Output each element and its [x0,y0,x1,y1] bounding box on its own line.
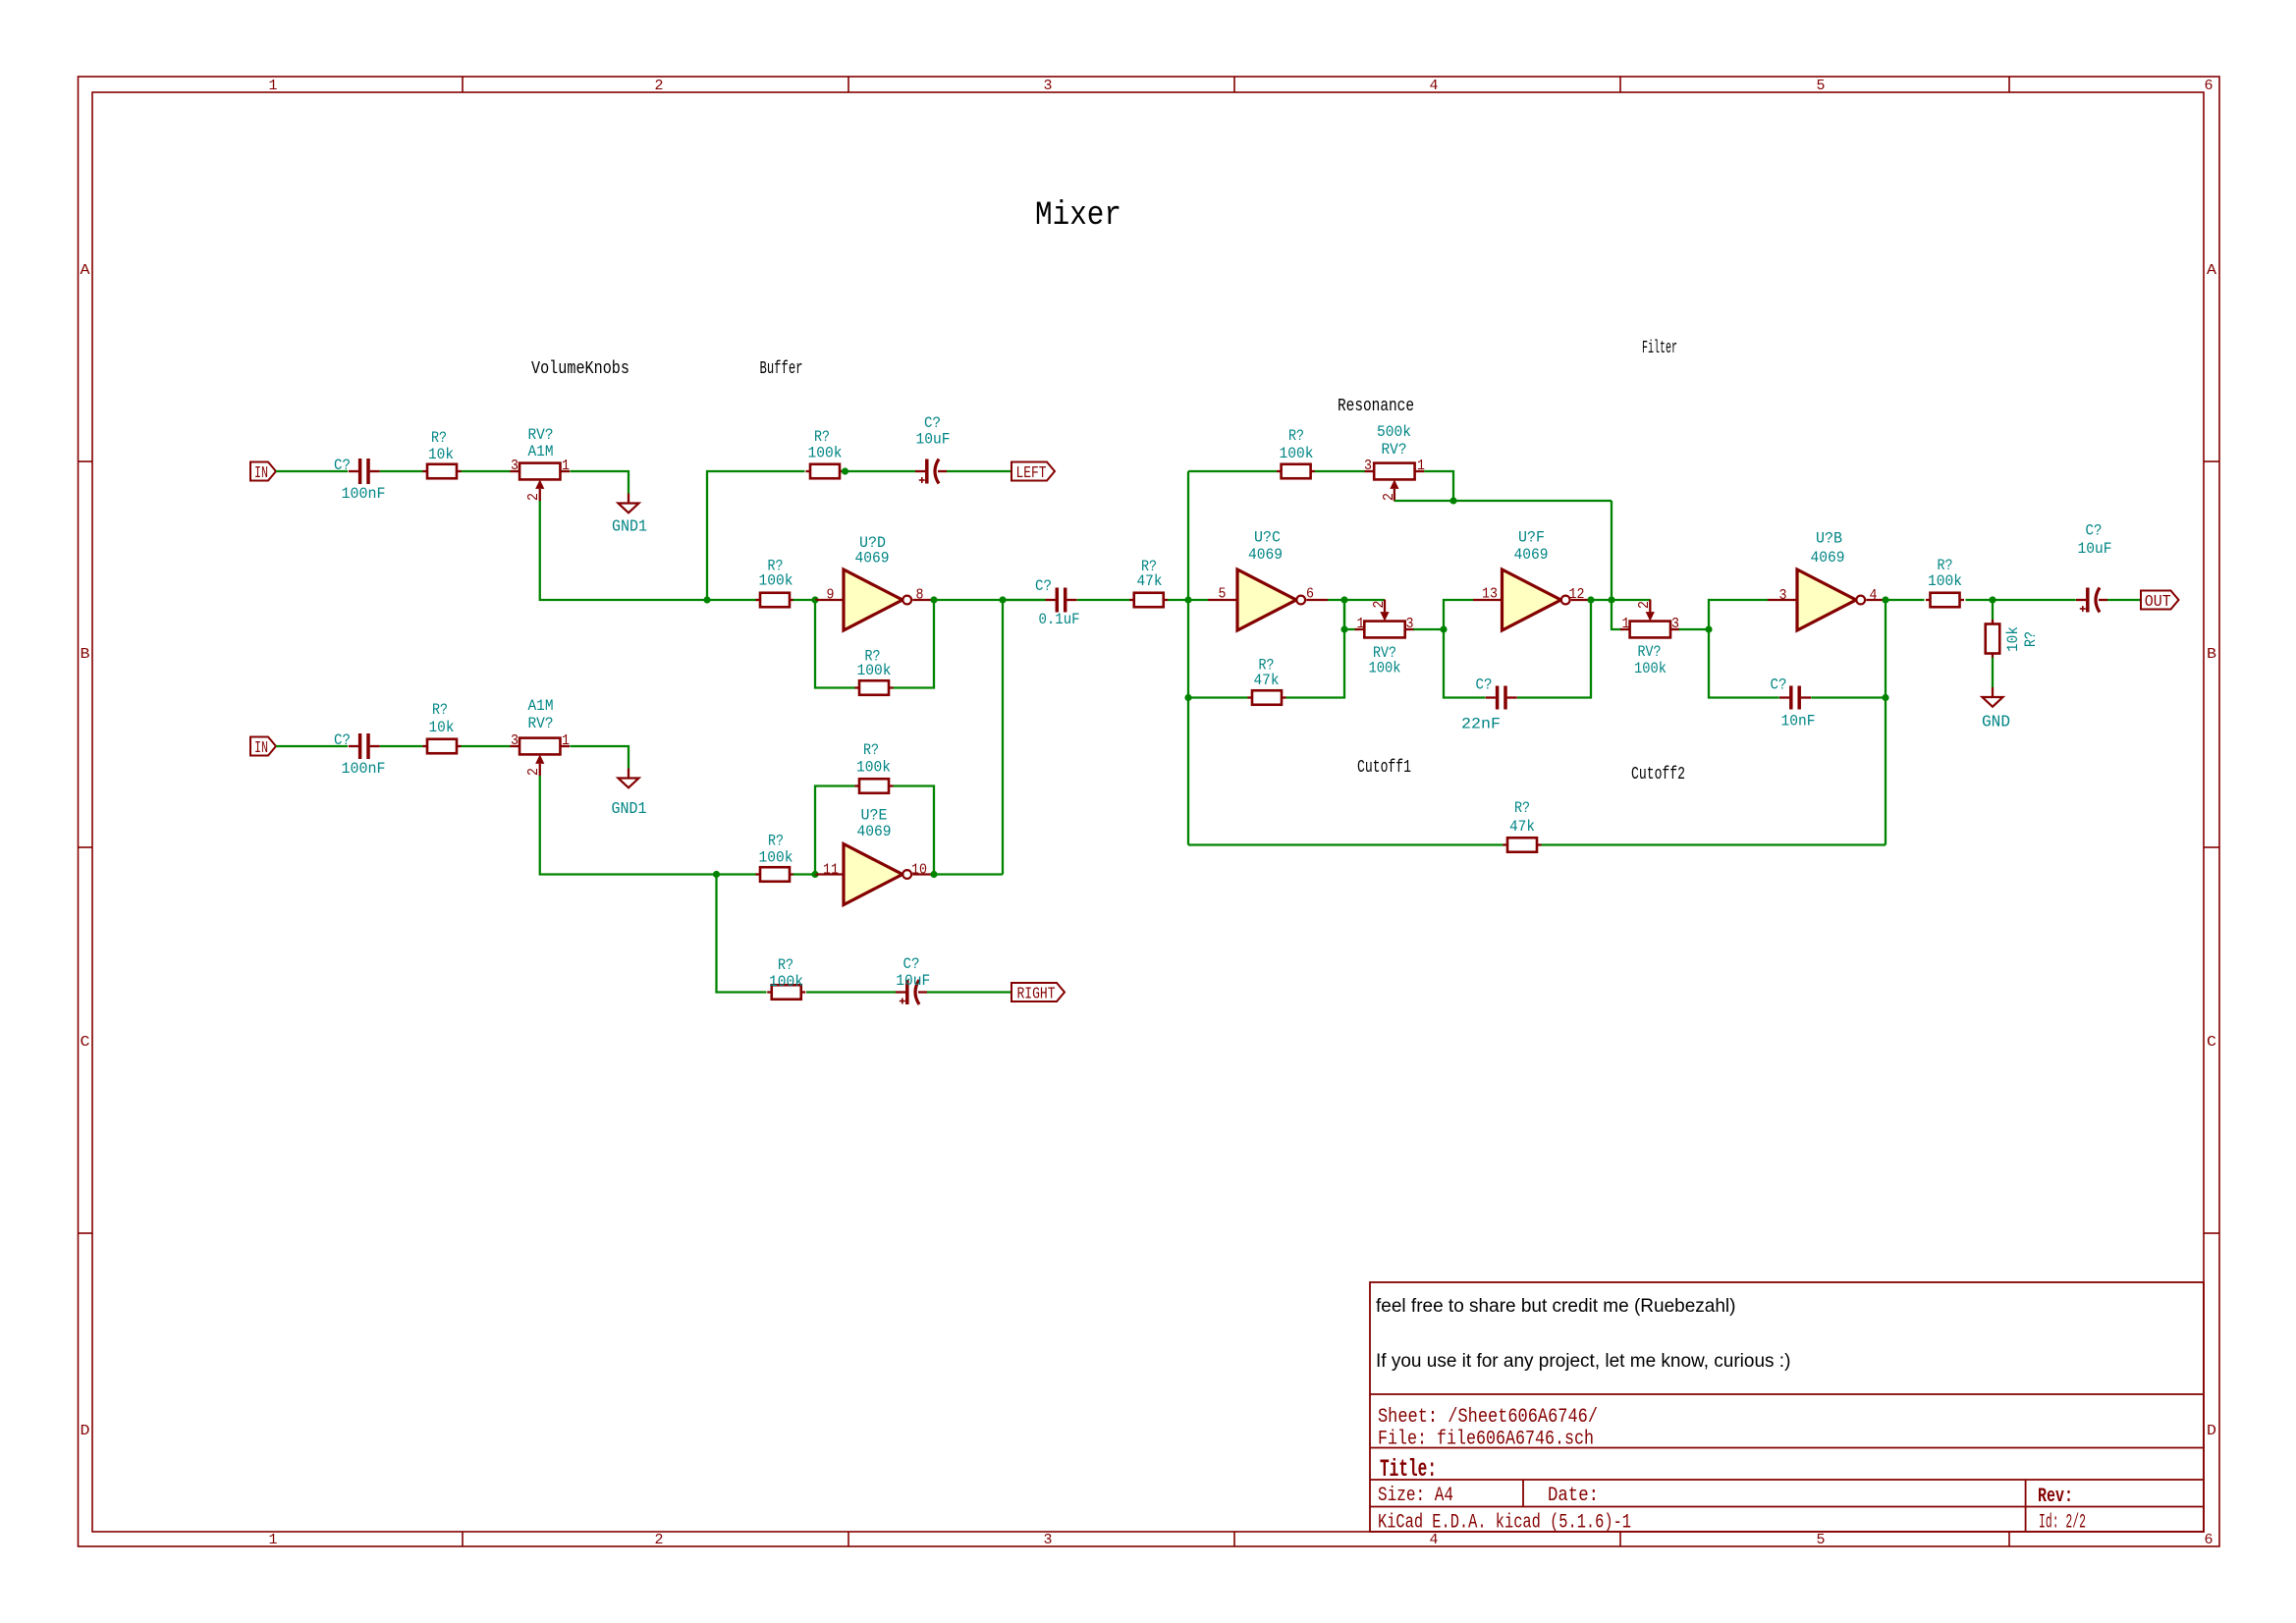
U?B output riser down [1885,600,1886,845]
pin 10 wire (U?E output pin) [912,873,934,875]
svg-text:100nF: 100nF [342,485,386,503]
svg-text:Buffer: Buffer [760,359,803,379]
wire out node to 10uF cap [1993,599,2076,601]
svg-text:4069: 4069 [1514,546,1549,564]
svg-text:1: 1 [269,78,278,94]
svg-text:500k: 500k [1377,423,1411,441]
ground symbol GND (output) [1983,687,2003,707]
capacitor C? 100nF (channel 1) [349,459,380,484]
port LEFT [1011,462,1055,481]
node junction cutoff2 pin3 [1705,625,1712,632]
svg-text:R?: R? [778,956,793,974]
svg-text:6: 6 [2205,78,2214,94]
pin 13 wire (U?F input pin) [1473,599,1503,601]
svg-text:Size: A4: Size: A4 [1378,1485,1453,1507]
svg-text:R?: R? [431,429,447,447]
svg-text:1: 1 [562,458,570,474]
wire ch2 node down to RIGHT row [717,875,767,993]
inverter U?E 4069 [844,844,911,905]
wire mix riser down to channel 2 [1002,600,1004,875]
svg-text:GND1: GND1 [612,800,647,819]
svg-text:2: 2 [525,493,542,501]
svg-text:R?: R? [2022,631,2040,647]
feedback wire down to pin 10 node [894,786,935,875]
wire cap to R 47k [1077,599,1130,601]
wire U?C output to cutoff1 wiper [1328,599,1385,601]
svg-text:Rev:: Rev: [2038,1486,2073,1508]
svg-text:Cutoff2: Cutoff2 [1631,765,1685,784]
port IN (channel 1) [250,462,276,481]
svg-text:100k: 100k [1928,572,1962,590]
wire node up to pin 13 [1444,600,1473,629]
svg-text:1: 1 [1357,616,1365,632]
wire node to R input U?E [717,873,757,875]
inverter U?C 4069 [1237,569,1305,630]
resistor R? 100k (U?E input) [756,867,794,882]
svg-text:10nF: 10nF [1781,713,1816,730]
long feedback wire bottom right [1542,843,1886,845]
svg-text:3: 3 [1779,587,1787,604]
svg-text:Mixer: Mixer [1035,197,1121,235]
svg-text:100k: 100k [808,445,843,462]
node junction mix [999,596,1006,603]
svg-text:RV?: RV? [528,715,554,732]
svg-text:10: 10 [911,862,927,879]
svg-text:2: 2 [1636,601,1653,609]
node junction after LEFT resistor [842,467,848,474]
svg-text:100k: 100k [857,662,892,679]
svg-text:B: B [2207,646,2216,663]
resistor R? 47k (global feedback) [1503,838,1542,852]
svg-text:2: 2 [525,768,542,776]
svg-text:RV?: RV? [528,426,554,444]
svg-text:IN: IN [254,739,268,758]
wire C2 to R2 [380,745,423,747]
node junction cutoff1 pin3 [1440,625,1447,632]
capacitor C? 100nF (channel 2) [349,733,380,759]
wire U?D output to mix node [934,599,1046,601]
svg-text:4069: 4069 [855,550,890,568]
svg-text:A: A [2207,262,2216,279]
resistor R? 100k (to LEFT output) [806,464,845,479]
node junction filter input [1184,596,1191,603]
wire R to pin 11 node [793,873,816,875]
svg-text:IN: IN [254,464,268,483]
svg-text:LEFT: LEFT [1016,464,1047,483]
ground symbol GND1 (channel 2) [619,769,639,788]
wire down to cutoff2 pin1 [1612,600,1621,629]
port IN (channel 2) [250,737,276,756]
pin 4 wire (U?B output pin) [1866,599,1886,601]
svg-text:4069: 4069 [857,823,892,840]
node junction U?B output [1882,596,1888,603]
svg-text:RIGHT: RIGHT [1017,986,1056,1004]
wire C to LEFT port [947,470,1011,472]
svg-text:Resonance: Resonance [1338,397,1414,416]
svg-text:Date:: Date: [1548,1485,1599,1507]
inverter U?D 4069 [844,569,911,630]
wire RV1 pin1 to GND1 drop [570,471,629,494]
resistor R? 100k (output series) [1926,593,1964,608]
svg-text:R?: R? [863,741,879,759]
svg-text:3: 3 [1044,78,1053,94]
resonance feedback wire top [1188,470,1277,472]
svg-text:3: 3 [1406,616,1414,632]
node junction 10nF riser [1882,694,1888,701]
potentiometer RV? A1M (volume knob 2) [510,738,570,777]
wire R to RV 500k pin3 [1315,470,1365,472]
resistor R? 100k (U?D input) [756,593,794,608]
wire C to RIGHT port [927,991,1011,993]
wire IN2 to C2 [276,745,348,747]
svg-text:4069: 4069 [1811,549,1845,567]
node junction ch2 riser [713,871,720,878]
potentiometer RV? 100k (Cutoff2) [1620,600,1680,638]
svg-text:GND1: GND1 [612,518,647,537]
inverter U?B 4069 [1797,569,1865,630]
svg-text:OUT: OUT [2145,593,2171,612]
svg-text:R?: R? [768,833,784,850]
svg-text:R?: R? [1514,799,1530,817]
capacitor C? 10uF polarized (LEFT) [915,460,947,484]
svg-text:4: 4 [1430,1532,1439,1548]
node junction U?C output [1340,596,1347,603]
resistor R? 10k (channel 2 input) [423,739,462,754]
svg-text:1: 1 [562,732,570,749]
capacitor C? 0.1uF (filter input) [1046,588,1077,613]
wire R to C 10uF (RIGHT) [806,991,896,993]
wire lower bus to R47k [1188,696,1248,698]
svg-text:47k: 47k [1137,572,1163,590]
svg-text:2: 2 [1381,493,1397,501]
pin 3 wire (U?B input pin) [1768,599,1797,601]
resistor R? 10k (output load, vertical) [1986,620,2000,658]
svg-text:R?: R? [432,701,448,719]
svg-text:100k: 100k [1280,445,1314,462]
node junction pin 9 [811,596,818,603]
svg-text:10uF: 10uF [916,431,951,449]
svg-text:100k: 100k [1634,660,1667,677]
node junction ch1 riser [703,596,710,603]
svg-text:22nF: 22nF [1461,716,1501,733]
svg-text:5: 5 [1817,1532,1826,1548]
svg-text:11: 11 [823,862,839,879]
node junction pin 8 [930,596,937,603]
svg-text:3: 3 [1364,458,1372,474]
svg-text:10k: 10k [429,719,455,736]
svg-text:C?: C? [2086,522,2103,540]
svg-text:U?F: U?F [1518,529,1545,547]
svg-text:C: C [81,1034,90,1051]
svg-text:3: 3 [511,732,519,749]
wire node up to pin 3 U?B [1709,600,1768,629]
wire IN1 to C1 [276,470,348,472]
svg-text:KiCad E.D.A. kicad (5.1.6)-1: KiCad E.D.A. kicad (5.1.6)-1 [1378,1512,1631,1535]
svg-text:0.1uF: 0.1uF [1039,611,1080,628]
svg-text:B: B [81,646,90,663]
svg-text:8: 8 [916,587,924,604]
pin 11 wire (U?E input pin) [815,873,844,875]
svg-text:100nF: 100nF [342,760,386,778]
svg-text:VolumeKnobs: VolumeKnobs [531,359,629,379]
svg-text:2: 2 [1371,601,1388,609]
svg-text:File: file606A6746.sch: File: file606A6746.sch [1378,1429,1594,1451]
svg-text:4069: 4069 [1248,546,1283,564]
node junction pin 11 [811,871,818,878]
svg-text:C?: C? [1476,676,1493,694]
svg-text:47k: 47k [1509,818,1535,836]
svg-text:100k: 100k [769,973,803,991]
svg-text:3: 3 [1671,616,1679,632]
svg-text:6: 6 [2205,1532,2214,1548]
svg-text:U?B: U?B [1816,530,1842,548]
svg-text:13: 13 [1482,586,1498,603]
pin 5 wire (U?C input pin) [1208,599,1237,601]
wire mix node to 0.1uF cap [1003,599,1045,601]
svg-text:3: 3 [511,458,519,474]
potentiometer RV? 500k (resonance) [1365,463,1425,502]
svg-text:C?: C? [924,414,941,432]
svg-text:2: 2 [655,1532,664,1548]
wire R to pin 9 node [793,599,816,601]
svg-text:100k: 100k [759,572,793,590]
potentiometer RV? A1M (volume knob 1) [510,463,570,502]
svg-text:C: C [2207,1034,2216,1051]
capacitor C? 10uF polarized (RIGHT) [896,980,927,1004]
wire cap to OUT port [2107,599,2141,601]
svg-text:1: 1 [269,1532,278,1548]
pin 6 wire (U?C output pin) [1306,599,1328,601]
svg-text:Sheet: /Sheet606A6746/: Sheet: /Sheet606A6746/ [1378,1406,1598,1429]
svg-text:GND: GND [1982,714,2010,732]
svg-text:R?: R? [814,428,830,446]
svg-text:If you use it for any project,: If you use it for any project, let me kn… [1376,1351,1790,1372]
pin 8 wire (U?D output pin) [912,599,934,601]
svg-text:C?: C? [1035,577,1052,595]
svg-text:C?: C? [903,955,920,973]
wire R1 to RV1 pin3 [462,470,511,472]
node junction pin 10 [930,871,937,878]
svg-text:100k: 100k [1369,660,1401,677]
svg-text:4: 4 [1430,78,1439,94]
wire RV2 wiper down to node [540,776,717,875]
resistor R? 100k (U?D feedback) [855,680,894,695]
svg-text:12: 12 [1569,586,1585,603]
svg-text:A1M: A1M [528,697,554,715]
svg-text:Filter: Filter [1642,339,1677,358]
wire R2 to RV2 pin3 [462,745,511,747]
ground symbol GND1 (channel 1) [619,494,639,514]
title block frame [1370,1282,2204,1532]
inverter U?F 4069 [1503,569,1570,630]
wire out node down to R 10k [1992,600,1994,621]
resistor R? 47k (U?C feedback) [1248,690,1286,705]
node junction U?F output [1587,596,1594,603]
svg-text:RV?: RV? [1638,643,1662,661]
svg-text:RV?: RV? [1382,441,1407,459]
svg-text:3: 3 [1044,1532,1053,1548]
wire cutoff2 pin3 to node [1679,628,1709,630]
svg-text:5: 5 [1219,586,1227,603]
wire riser up to LEFT row [707,471,805,600]
svg-text:9: 9 [827,587,835,604]
svg-text:100k: 100k [759,849,793,867]
wire C1 to R1 [380,470,423,472]
port OUT [2141,591,2179,610]
capacitor C? 10nF (integrator 2) [1779,686,1811,710]
wire U?B output to R 100k out [1886,599,1925,601]
pin 9 wire (U?D input pin) [815,599,844,601]
svg-text:10uF: 10uF [896,972,930,990]
node junction output [1989,596,1995,603]
wire 22nF to riser up [1517,600,1591,698]
node junction resonance [1449,497,1456,504]
svg-text:Cutoff1: Cutoff1 [1357,758,1411,778]
svg-text:A1M: A1M [528,443,554,460]
wire R 10k to GND [1992,658,1994,688]
node junction cutoff1 pin1 [1340,625,1347,632]
svg-text:R?: R? [1288,427,1304,445]
wire R to out node [1966,599,1994,601]
svg-text:Title:: Title: [1380,1455,1437,1484]
node junction resonance drop [1608,596,1614,603]
svg-text:U?C: U?C [1254,529,1281,547]
long feedback wire bottom [1188,843,1503,845]
potentiometer RV? 100k (Cutoff1) [1355,600,1415,638]
svg-text:U?E: U?E [861,807,888,825]
wire to C 10uF (LEFT) [846,470,916,472]
wire RV2 pin1 to GND1 drop [570,746,629,769]
resonance drop wire [1611,501,1613,600]
svg-text:A: A [81,262,90,279]
resistor R? 10k (channel 1 input) [423,464,462,479]
wire U?F output to cutoff2 wiper [1591,599,1651,601]
svg-text:6: 6 [1306,586,1314,603]
svg-text:D: D [81,1423,90,1439]
wire RV1 wiper down to node [540,501,707,600]
resistor R? 100k (resonance) [1277,464,1315,479]
svg-text:10uF: 10uF [2078,540,2112,558]
capacitor C? 10uF polarized (OUT) [2076,588,2107,613]
wire U?E output to mix riser [934,873,1003,875]
port RIGHT [1011,983,1065,1001]
svg-text:1: 1 [1417,458,1425,474]
wire R47k to riser [1286,600,1345,698]
svg-text:C?: C? [334,457,351,474]
svg-text:D: D [2207,1423,2216,1439]
wire down to cutoff1 pin1 [1344,600,1356,629]
wire node to R input U?D [707,599,757,601]
wire node down to 22nF [1444,629,1486,698]
svg-text:Id: 2/2: Id: 2/2 [2039,1512,2086,1535]
wire resonance wiper row [1394,500,1612,502]
svg-text:10k: 10k [428,446,454,463]
svg-text:C?: C? [1771,676,1787,694]
resistor R? 100k (U?E feedback) [855,779,894,793]
feedback wire up to pin 8 node [894,600,935,688]
svg-text:2: 2 [655,78,664,94]
svg-text:10k: 10k [2004,626,2022,652]
svg-text:4: 4 [1870,587,1878,604]
filter input vertical bus [1187,471,1189,845]
feedback wire up from pin 11 node [815,786,855,875]
svg-text:1: 1 [1622,616,1630,632]
wire cutoff1 pin3 to node [1413,628,1444,630]
svg-text:feel free to share but credit: feel free to share but credit me (Ruebez… [1376,1296,1735,1317]
svg-text:C?: C? [334,731,351,749]
node junction lower bus [1184,694,1191,701]
pin 12 wire (U?F output pin) [1571,599,1591,601]
wire R 47k to filter node [1168,599,1208,601]
svg-text:5: 5 [1817,78,1826,94]
resistor R? 100k (RIGHT series) [767,985,805,1000]
resistor R? 47k (filter series) [1129,593,1168,608]
svg-text:47k: 47k [1254,672,1280,689]
wire RV500k pin1 down [1424,471,1453,501]
feedback wire down from pin 9 node [815,600,855,688]
wire 10nF to output riser [1811,696,1886,698]
wire node down to 10nF [1709,629,1779,698]
capacitor C? 22nF (integrator 1) [1486,686,1517,710]
svg-text:100k: 100k [856,759,891,777]
